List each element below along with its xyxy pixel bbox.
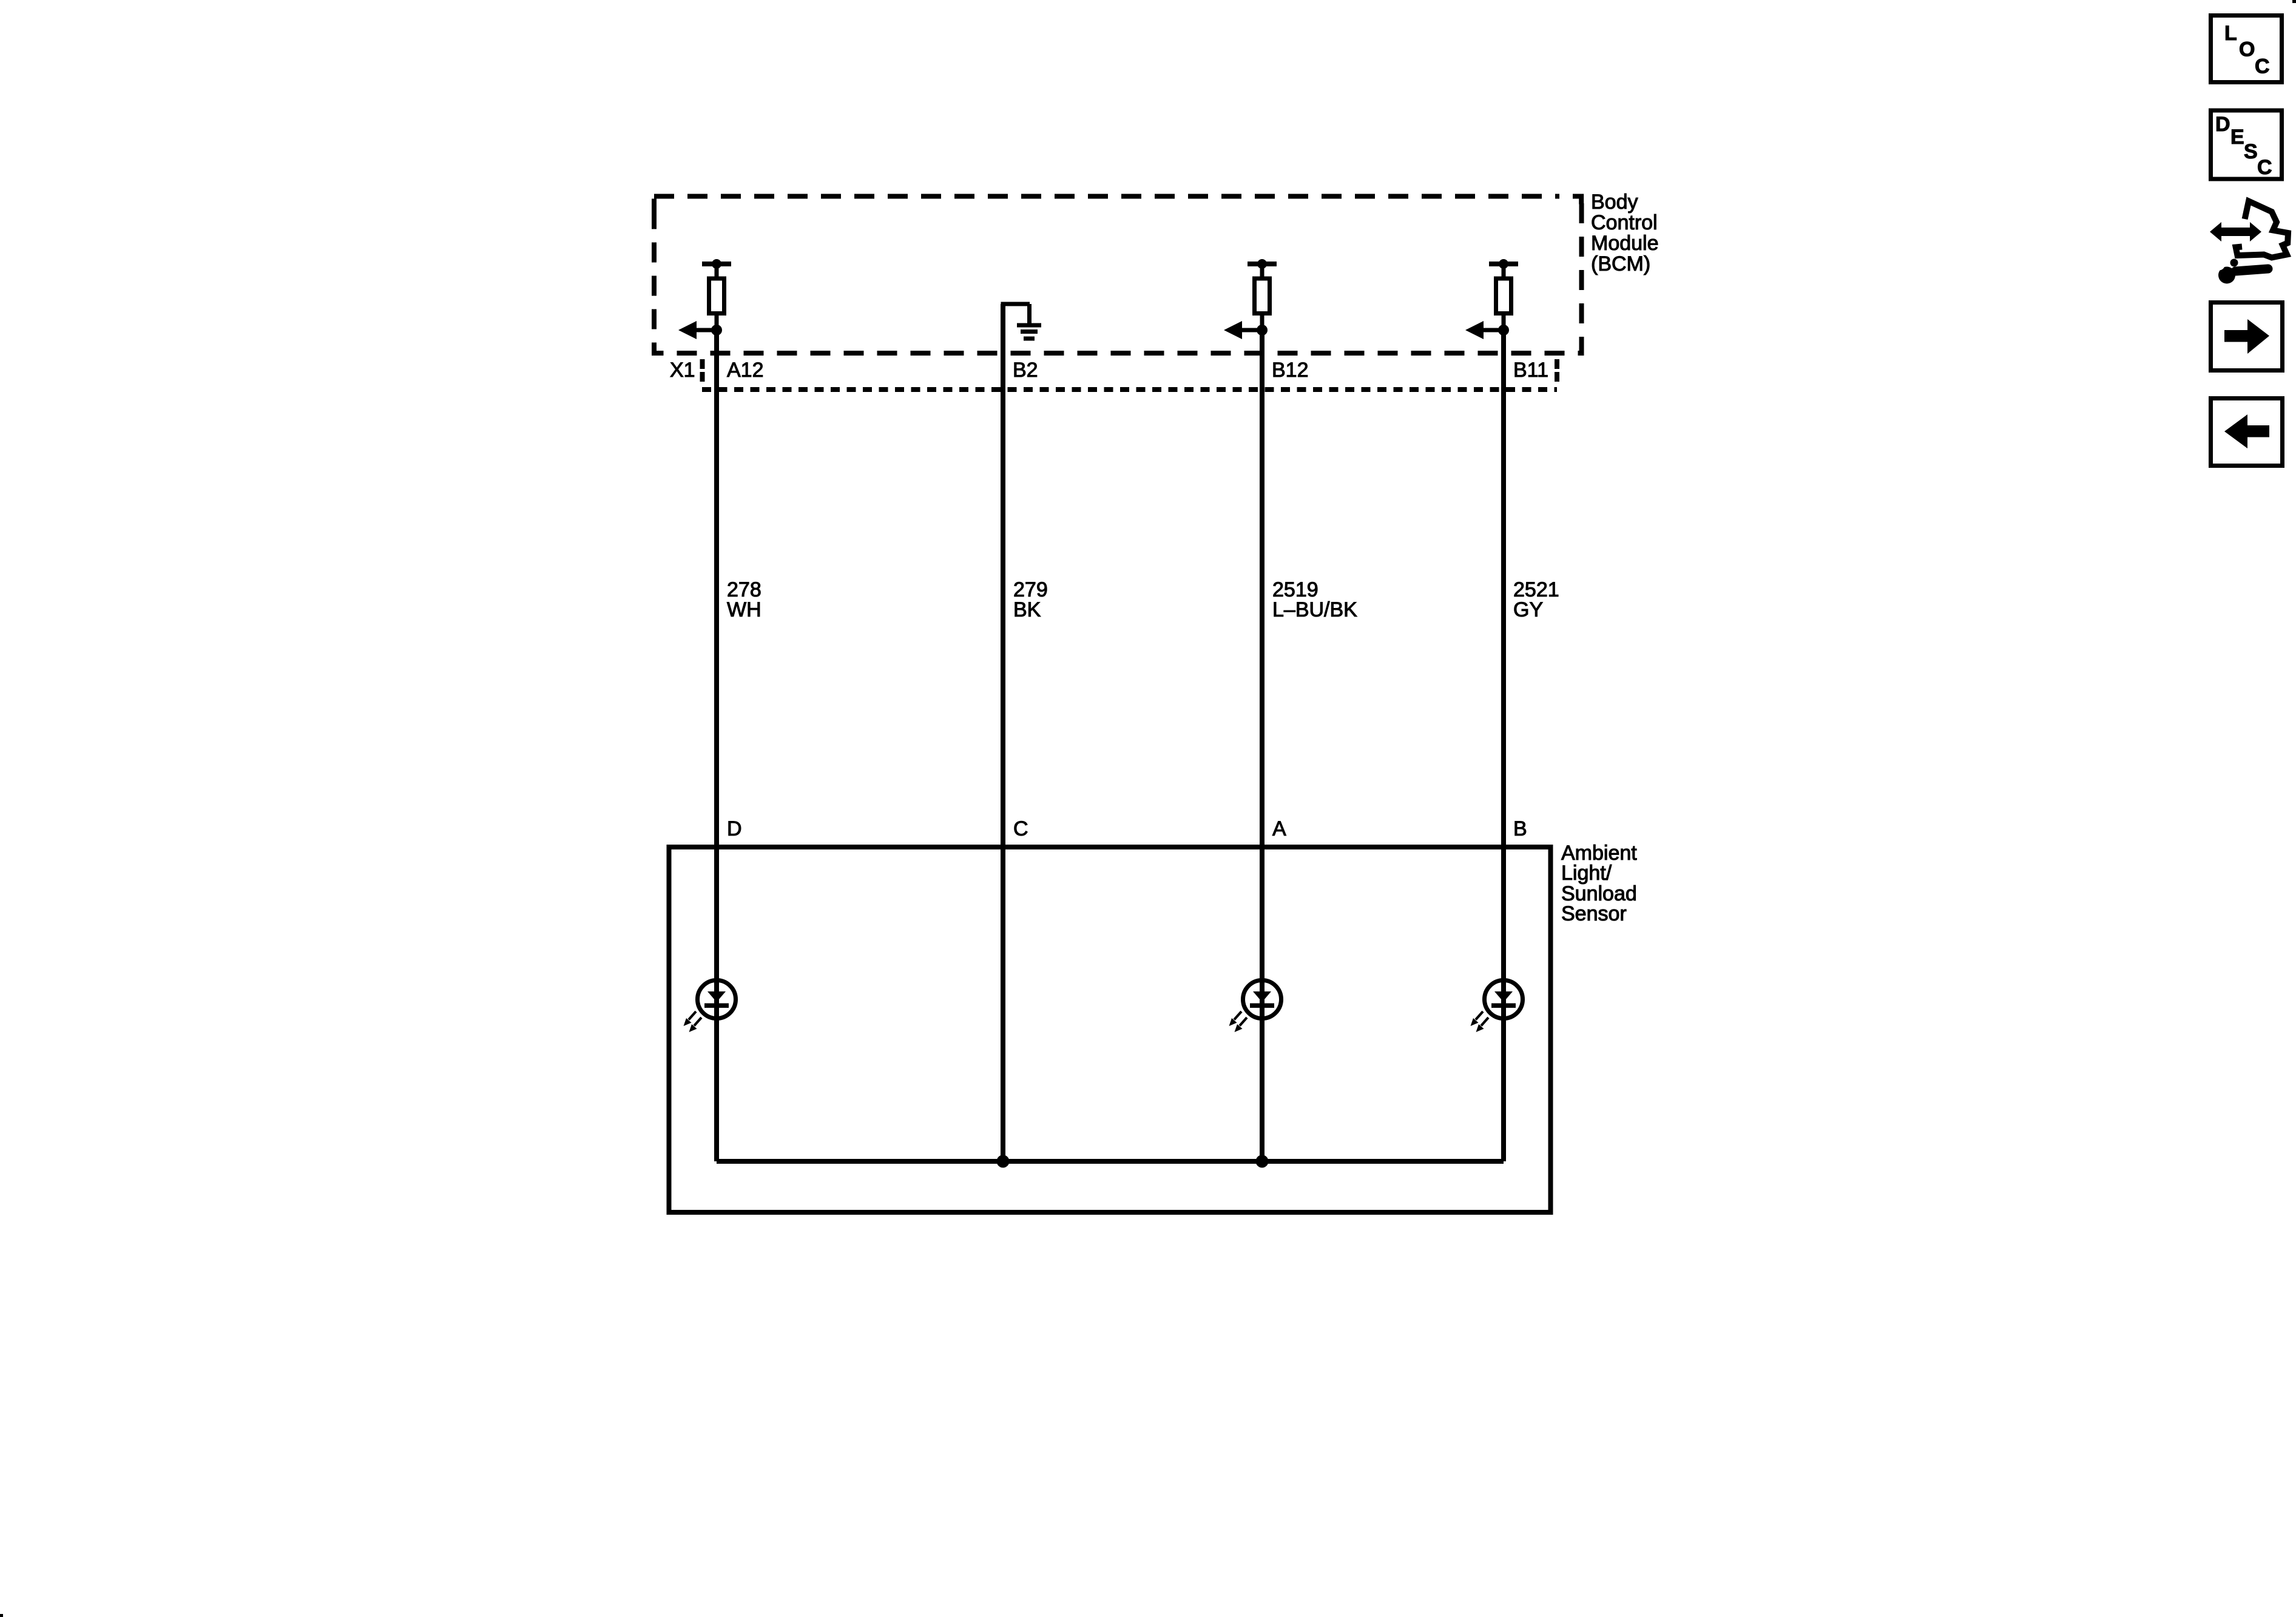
svg-text:E: E: [2230, 126, 2244, 149]
svg-text:C: C: [1013, 817, 1028, 840]
svg-text:Control: Control: [1591, 211, 1658, 234]
svg-text:B2: B2: [1013, 359, 1038, 382]
svg-text:Body: Body: [1591, 191, 1638, 214]
svg-text:C: C: [2255, 55, 2270, 78]
svg-text:D: D: [727, 817, 742, 840]
svg-text:(BCM): (BCM): [1591, 252, 1650, 275]
svg-text:O: O: [2239, 38, 2255, 61]
svg-text:Module: Module: [1591, 232, 1659, 255]
svg-text:B: B: [1513, 817, 1527, 840]
svg-text:A: A: [1272, 817, 1286, 840]
svg-text:S: S: [2244, 140, 2258, 163]
svg-text:Light/: Light/: [1561, 862, 1612, 885]
svg-text:X1: X1: [670, 359, 695, 382]
svg-text:C: C: [2257, 156, 2272, 179]
svg-text:GY: GY: [1513, 598, 1543, 621]
svg-text:B12: B12: [1272, 359, 1309, 382]
svg-text:Sensor: Sensor: [1561, 902, 1627, 925]
svg-text:L: L: [2224, 22, 2237, 45]
svg-text:D: D: [2215, 113, 2230, 136]
svg-text:WH: WH: [727, 598, 761, 621]
svg-text:BK: BK: [1013, 598, 1041, 621]
svg-text:B11: B11: [1513, 359, 1548, 382]
svg-text:L–BU/BK: L–BU/BK: [1272, 598, 1357, 621]
svg-text:A12: A12: [727, 359, 764, 382]
